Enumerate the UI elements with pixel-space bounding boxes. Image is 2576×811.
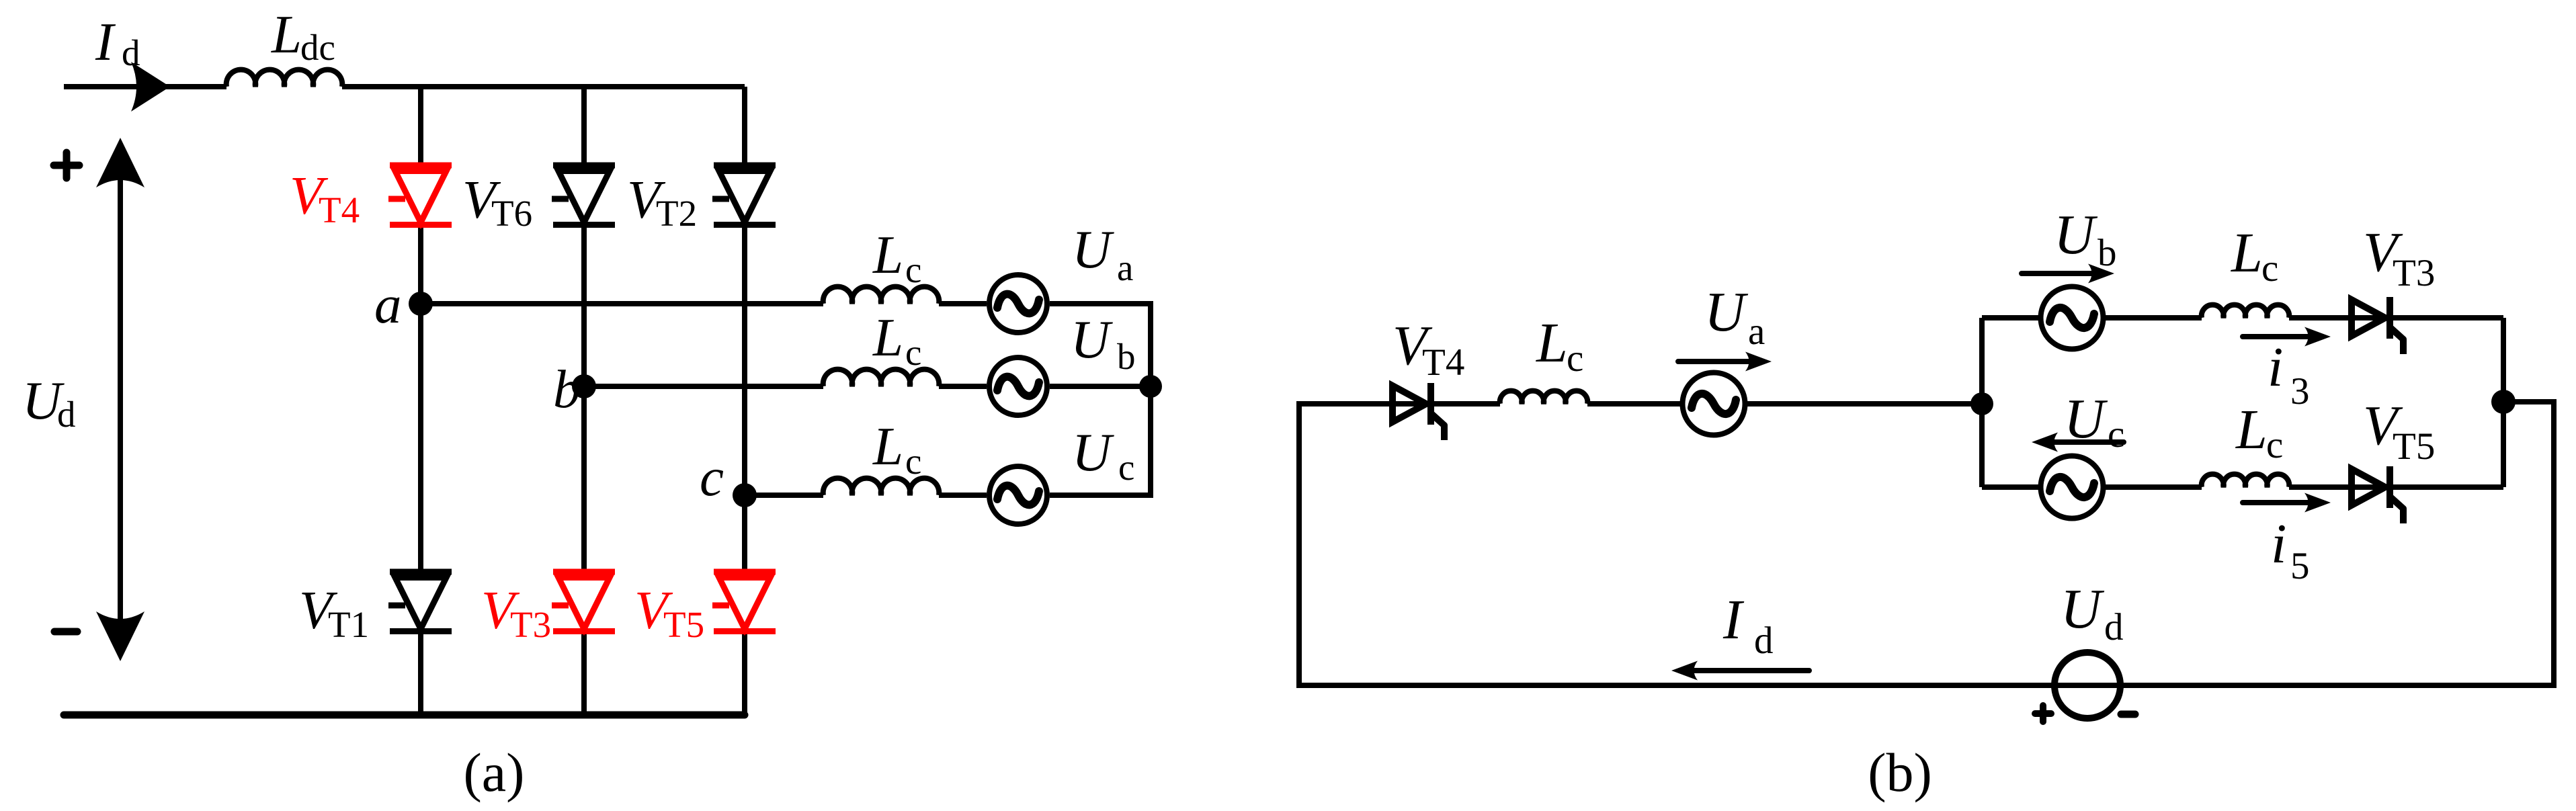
svg-text:c: c (1567, 337, 1583, 380)
svg-text:U: U (1704, 281, 1749, 343)
svg-text:L: L (872, 416, 903, 476)
svg-text:b: b (2097, 232, 2117, 274)
svg-text:U: U (2064, 388, 2108, 450)
svg-text:dc: dc (300, 27, 335, 68)
svg-text:T5: T5 (663, 604, 704, 645)
svg-text:d: d (57, 394, 76, 435)
svg-text:T5: T5 (2393, 425, 2435, 468)
svg-text:L: L (2235, 398, 2268, 461)
svg-text:L: L (2231, 222, 2263, 284)
svg-text:d: d (1754, 620, 1774, 662)
svg-text:U: U (1072, 422, 1114, 482)
svg-text:a: a (1117, 247, 1133, 288)
svg-text:c: c (2108, 413, 2124, 456)
svg-text:T3: T3 (510, 604, 551, 645)
svg-text:b: b (1117, 336, 1136, 377)
svg-text:c: c (905, 441, 921, 482)
svg-text:c: c (905, 249, 921, 290)
svg-text:T2: T2 (656, 193, 697, 234)
svg-text:c: c (2261, 247, 2278, 290)
svg-text:I: I (1722, 589, 1745, 651)
svg-text:(a): (a) (463, 742, 524, 803)
svg-text:a: a (374, 274, 402, 335)
svg-text:L: L (872, 307, 903, 368)
svg-text:c: c (2266, 424, 2283, 466)
svg-text:3: 3 (2290, 370, 2310, 413)
svg-text:c: c (905, 332, 921, 373)
svg-text:d: d (122, 32, 140, 73)
svg-text:L: L (872, 224, 903, 285)
svg-text:i: i (2271, 513, 2286, 575)
svg-text:b: b (553, 359, 581, 419)
svg-text:U: U (1072, 219, 1114, 280)
svg-text:I: I (95, 11, 116, 72)
svg-text:5: 5 (2290, 545, 2310, 587)
svg-text:c: c (1118, 447, 1134, 488)
svg-text:T4: T4 (1422, 341, 1464, 384)
svg-text:L: L (1536, 312, 1568, 374)
svg-text:i: i (2268, 336, 2283, 398)
svg-text:(b): (b) (1868, 742, 1932, 803)
svg-text:d: d (2104, 606, 2124, 648)
svg-text:T3: T3 (2393, 252, 2435, 294)
svg-text:U: U (1071, 309, 1113, 370)
svg-text:U: U (2054, 204, 2098, 266)
svg-text:a: a (1748, 310, 1765, 353)
svg-text:c: c (700, 447, 724, 507)
svg-text:U: U (2061, 578, 2105, 640)
svg-text:T1: T1 (328, 604, 369, 645)
svg-text:T4: T4 (319, 189, 360, 230)
svg-text:T6: T6 (491, 193, 532, 234)
svg-text:L: L (271, 4, 302, 65)
